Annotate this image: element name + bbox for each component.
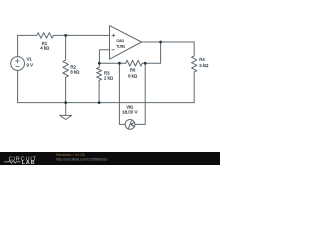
svg-text:R4: R4 xyxy=(199,57,205,62)
voltage source V1 xyxy=(11,57,25,71)
resistor R1 xyxy=(37,33,54,38)
junction dots xyxy=(64,34,162,104)
op-amp U1 OA1 xyxy=(110,26,142,60)
svg-text:8 kΩ: 8 kΩ xyxy=(70,70,80,75)
feedback wire right + up to output xyxy=(142,42,160,63)
svg-text:OA1: OA1 xyxy=(116,38,124,43)
node VM1 right tap xyxy=(144,62,147,65)
node ground rail R3 xyxy=(98,101,101,104)
svg-text:6 kΩ: 6 kΩ xyxy=(128,73,138,78)
svg-text:R2: R2 xyxy=(70,64,76,69)
footer logo resistor glyph xyxy=(4,161,21,164)
resistor R3 xyxy=(97,63,102,102)
node R1/R2/+in xyxy=(64,34,67,37)
bottom rail wire xyxy=(18,102,195,104)
wire V1 top xyxy=(18,35,37,56)
footer watermark bar xyxy=(0,152,220,165)
node ground rail R2 xyxy=(64,101,67,104)
ground xyxy=(60,103,72,120)
labels xyxy=(27,38,210,115)
voltmeter VM1 lead left xyxy=(119,63,125,124)
svg-text:V1: V1 xyxy=(27,57,33,62)
svg-text:R6: R6 xyxy=(130,68,136,73)
resistor R6 xyxy=(126,60,143,66)
node output xyxy=(159,41,162,44)
svg-text:4 kΩ: 4 kΩ xyxy=(40,45,50,50)
svg-text:3 kΩ: 3 kΩ xyxy=(199,63,209,68)
wire R1 to op-amp + input xyxy=(54,34,110,36)
feedback wire left xyxy=(99,62,125,64)
svg-text:TL081: TL081 xyxy=(116,44,125,49)
resistor R2 xyxy=(63,35,69,102)
footer logo CIRCUIT LAB xyxy=(9,157,37,166)
svg-text:http://circuitlab.com/c/59f8bv: http://circuitlab.com/c/59f8bvd3n xyxy=(56,157,108,161)
node VM1 left tap xyxy=(118,62,121,65)
svg-text:9 V: 9 V xyxy=(27,62,34,67)
voltmeter VM1 lead right xyxy=(135,63,145,124)
wire op-amp minus input xyxy=(99,50,109,63)
voltmeter VM1 body xyxy=(125,120,135,130)
svg-text:LAB: LAB xyxy=(22,160,36,165)
svg-text:18.00 V: 18.00 V xyxy=(122,110,137,115)
wire V1 bottom xyxy=(17,70,19,102)
svg-text:2 kΩ: 2 kΩ xyxy=(104,76,114,81)
op-amp output wire xyxy=(142,41,195,43)
resistor R4 xyxy=(192,42,197,103)
node -in/R3/R6 xyxy=(98,62,101,65)
